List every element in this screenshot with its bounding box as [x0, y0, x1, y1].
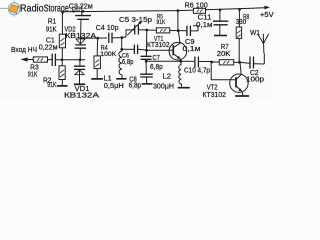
capacitor C1 — [52, 54, 55, 66]
wire C2 to antenna — [254, 53, 265, 64]
wire corner to C5 — [122, 30, 134, 37]
resistor R7 (horizontal) — [212, 60, 240, 65]
node C7/C8 junction — [145, 60, 148, 63]
wire C9 right corner — [191, 26, 198, 31]
transistor VT2 — [230, 63, 248, 96]
wire C4 to C5 corner — [112, 37, 122, 39]
wire corner down to VT2 base — [211, 62, 236, 80]
ground VT2 emitter — [235, 95, 249, 97]
wire logo left stub — [0, 1, 14, 17]
wire R5 to collector node — [170, 30, 187, 32]
node C6 junction — [120, 48, 123, 51]
wire input node horizontal — [56, 59, 85, 61]
wire top +5V rail — [61, 8, 265, 12]
capacitor C3 (electrolytic) — [72, 10, 91, 19]
ground C8 — [142, 83, 153, 85]
ground R4 — [91, 78, 103, 80]
wire VD2 node to C4 — [80, 37, 107, 39]
capacitor C10 — [195, 57, 199, 68]
resistor R2 (vertical) — [59, 60, 65, 85]
varicap VD1 — [74, 60, 85, 84]
capacitor C11 — [213, 10, 228, 35]
transistor VT1 — [169, 31, 187, 61]
node R4 junction — [96, 37, 99, 40]
ground L1 — [116, 78, 126, 80]
node C6/base junction — [145, 49, 148, 52]
varicap VD2 — [75, 39, 87, 60]
ground L2 — [178, 87, 190, 89]
wire node to R5 — [147, 29, 157, 31]
capacitor C6 — [134, 45, 137, 54]
wire C6 left — [122, 48, 134, 50]
wire arrow to R3 — [28, 59, 34, 61]
wire +5V arrowhead — [265, 6, 270, 10]
wire L1 column vertical — [121, 38, 123, 52]
capacitor C8 — [140, 74, 153, 77]
wire base lead VT1 — [147, 49, 173, 51]
logo RadioStorage watermark — [0, 1, 83, 17]
resistor R3 (horizontal) — [33, 57, 47, 62]
resistor R5 (horizontal) — [156, 28, 169, 33]
node C10/R7 junction — [210, 61, 213, 64]
node VD1/VD2 junction — [79, 58, 82, 61]
resistor R6 (horizontal, on rail) — [193, 8, 205, 13]
node rail-R8 junction — [238, 8, 241, 11]
capacitor C9 — [187, 26, 191, 36]
ground R2 — [57, 85, 68, 87]
input arrow — [21, 57, 28, 61]
capacitor C4 — [109, 33, 112, 43]
node C4/C5/L1 junction — [121, 36, 124, 39]
node emitter VT1 — [179, 60, 182, 63]
wire mid column x146 — [145, 30, 148, 56]
wire collector node to C2 — [240, 61, 250, 64]
wire rail to collector node — [177, 11, 179, 31]
inductor L2 — [179, 61, 182, 87]
wire C3 to VD2 — [80, 20, 83, 39]
wire R3 to C1 — [48, 59, 53, 61]
resistor R4 (vertical) — [94, 38, 100, 78]
wire C5 to node — [139, 29, 147, 31]
node collector VT1 — [177, 29, 180, 32]
antenna W1 — [258, 34, 269, 54]
wire emitter VT1 to C7 node — [146, 60, 181, 62]
node rail-R5 junction — [177, 9, 180, 12]
ground C11 — [214, 35, 227, 37]
node C5/R5 junction — [145, 29, 148, 32]
node rail-C3 junction — [82, 10, 85, 13]
logo circle — [8, 3, 20, 15]
ground VD1 — [74, 83, 85, 85]
trimmer capacitor C5 — [127, 21, 142, 35]
resistor R8 (vertical) — [236, 10, 241, 63]
wire C7 to C8 — [145, 59, 147, 74]
capacitor C7 — [141, 56, 152, 59]
node R1/R2 junction — [61, 58, 64, 61]
wire emitter to C10 — [181, 60, 194, 62]
logo orange arrow — [9, 5, 19, 13]
inductor L1 — [119, 51, 122, 75]
node rail-C11 junction — [219, 9, 222, 12]
wire C6 to base node — [138, 48, 147, 51]
resistor R1 (vertical) — [59, 12, 65, 60]
node R7/R8/collector — [238, 61, 241, 64]
wire C10 to base corner — [199, 61, 212, 63]
capacitor C2 — [250, 57, 254, 69]
